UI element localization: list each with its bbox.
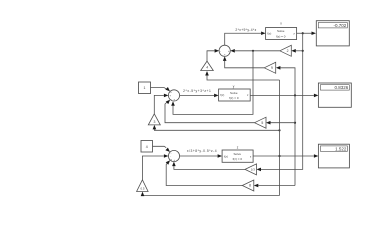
node junction 2x branch	[252, 50, 254, 52]
sum junction S1	[219, 45, 230, 56]
wire z to Gain 4	[207, 76, 280, 81]
wire y feedback vertical	[294, 95, 296, 185]
gain block G8 value 8	[242, 180, 254, 191]
gain block G2 value 2	[280, 45, 292, 56]
svg-text:5: 5	[261, 121, 263, 125]
display block Display y	[318, 83, 351, 107]
wire z feedback vertical	[279, 80, 281, 196]
svg-text:-0.702: -0.702	[334, 23, 347, 28]
svg-text:0.8326: 0.8326	[335, 85, 349, 90]
svg-text:f(z) = 0: f(z) = 0	[229, 96, 239, 100]
wire Solve y output to Display y	[250, 94, 314, 96]
svg-text:f(z) = 0: f(z) = 0	[276, 34, 286, 38]
svg-text:Solve: Solve	[277, 29, 285, 33]
wire y to Gain 8	[258, 185, 295, 187]
svg-text:Solve: Solve	[234, 152, 242, 156]
wire Constant 1 to S2 upper-left	[151, 88, 167, 89]
wire Gain 4 output to S1 left	[207, 51, 215, 61]
wire Solve z output to Display z	[253, 155, 314, 157]
node junction x to Gain 2	[302, 50, 304, 52]
gain block G13 value 1/3	[245, 164, 257, 175]
svg-text:4: 4	[206, 66, 208, 70]
wire x feedback vertical	[261, 33, 303, 169]
node junction z	[278, 155, 280, 157]
sum S2 port signs	[170, 91, 176, 101]
node junction x	[302, 32, 304, 34]
op block Solve z	[222, 150, 253, 162]
svg-text:0.5: 0.5	[140, 187, 144, 191]
svg-text:2: 2	[287, 49, 289, 53]
svg-text:2*x-5*y+3*z+1: 2*x-5*y+3*z+1	[183, 89, 211, 93]
display block Display x	[316, 21, 349, 46]
svg-text:f(z): f(z)	[267, 32, 271, 36]
op block Solve x	[266, 28, 297, 40]
wire 2x branch down to S2 bottom	[173, 51, 253, 115]
display block Display z	[318, 144, 349, 168]
wire S3 output to Solve z	[180, 155, 218, 157]
wire S2 output to Solve y	[180, 94, 215, 96]
svg-text:1.522: 1.522	[335, 146, 347, 151]
wire Gain 5 output to S2 lower-left	[165, 101, 255, 123]
svg-text:1: 1	[144, 86, 146, 90]
op block Solve y	[219, 89, 251, 101]
wire Gain 3 output to S2 left	[154, 95, 164, 113]
wire x to Gain 2	[296, 50, 303, 52]
sum S3 port signs	[170, 152, 176, 162]
svg-text:f(z) = 0: f(z) = 0	[233, 157, 243, 161]
svg-text:f(z): f(z)	[220, 93, 224, 97]
constant block C4 value 4	[141, 141, 153, 153]
wire Gain 9 output to S1 bottom	[225, 61, 265, 68]
gain block G4 value 4	[201, 61, 214, 70]
constant block C1 value 1	[139, 82, 151, 94]
sum S1 port signs	[220, 50, 230, 57]
svg-text:-: -	[171, 98, 172, 101]
svg-text:Solve: Solve	[230, 91, 238, 95]
wire Solve x output to Display x	[297, 32, 312, 34]
wire z to Gain 0.5	[143, 194, 280, 196]
svg-text:-: -	[220, 50, 221, 53]
gain block G5 value 5	[255, 117, 267, 128]
gain block G05 value 0.5	[137, 180, 149, 192]
svg-text:3: 3	[154, 120, 156, 124]
svg-text:2*x+9*y-4*z: 2*x+9*y-4*z	[235, 28, 256, 32]
sum junction S2	[168, 90, 179, 101]
wire S1 output to Solve x	[225, 33, 262, 45]
svg-text:8: 8	[249, 184, 251, 188]
node junction y to Gain 5	[294, 122, 296, 124]
svg-text:x/3+8*y-0.5*z-4: x/3+8*y-0.5*z-4	[187, 149, 217, 153]
node junction y	[294, 94, 296, 96]
wire y to Gain 5	[271, 122, 296, 124]
wire y to Gain 9	[280, 68, 295, 96]
svg-text:9: 9	[271, 66, 273, 70]
wire Gain 8 output to S3 lower-left	[166, 162, 242, 186]
wire Gain 1/3 output to S3 bottom	[174, 166, 245, 169]
wire Constant 4 to S3 upper-left	[153, 146, 167, 147]
svg-text:4: 4	[146, 145, 148, 149]
wire Gain 0.5 output to S3 left	[142, 156, 164, 180]
sum junction S3	[168, 150, 179, 161]
wire Gain 2 output to S1 right	[235, 50, 280, 52]
gain block G3 value 3	[148, 114, 160, 125]
wire z to Gain 3	[154, 128, 279, 131]
svg-text:f(z): f(z)	[224, 154, 228, 158]
gain block G9 value 9	[264, 62, 276, 73]
svg-text:1/3: 1/3	[251, 168, 255, 172]
node junction z to Gain 3	[278, 129, 280, 131]
